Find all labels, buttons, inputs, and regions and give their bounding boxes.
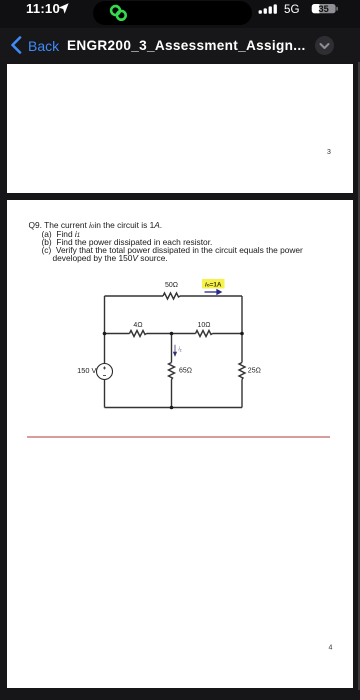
signal bars <box>258 4 280 14</box>
svg-text:i1: i1 <box>179 346 182 352</box>
wire middle right segment <box>213 332 243 334</box>
nav back chevron <box>9 36 23 54</box>
svg-text:50Ω: 50Ω <box>165 281 178 288</box>
wire top left segment <box>105 295 164 297</box>
voltage source 150V circle <box>97 363 113 379</box>
wire middle center segment <box>147 332 196 334</box>
svg-text:65Ω: 65Ω <box>179 367 192 374</box>
Back label <box>28 38 59 54</box>
wire center branch upper <box>171 333 173 362</box>
node dot left middle <box>103 331 107 335</box>
battery <box>311 3 339 15</box>
red divider line <box>27 436 330 438</box>
header background (status bar + nav bar) <box>0 0 360 62</box>
wire left vertical upper <box>104 296 106 364</box>
5G label <box>284 3 299 16</box>
status bar time <box>26 1 60 16</box>
svg-text:25Ω: 25Ω <box>248 367 261 374</box>
page 4 <box>7 200 353 688</box>
io arrow (navy, right) <box>205 289 222 293</box>
node dot right middle <box>240 331 244 335</box>
wire center branch lower <box>171 379 173 407</box>
svg-text:4: 4 <box>329 644 333 651</box>
wire right vertical lower <box>241 379 243 407</box>
resistor 4Ω zigzag <box>130 330 147 336</box>
page 3 (partial) <box>7 64 353 193</box>
question text block <box>29 220 163 230</box>
nav title <box>67 38 306 53</box>
resistor 50Ω zigzag <box>163 293 180 299</box>
wire right vertical upper <box>241 296 243 363</box>
wire middle left segment <box>105 332 130 334</box>
wire left vertical lower <box>104 379 106 407</box>
dynamic island <box>93 1 252 25</box>
node dot center bottom <box>170 405 174 409</box>
circuit schematic <box>7 200 352 688</box>
wire top right segment <box>180 295 242 297</box>
source polarity minus <box>103 374 106 376</box>
right edge scrollbar line <box>358 62 360 690</box>
resistor 25Ω zigzag vertical <box>239 362 245 379</box>
svg-text:io=1A: io=1A <box>205 281 222 288</box>
resistor 65Ω zigzag vertical <box>169 362 175 379</box>
resistor 10Ω zigzag <box>196 330 213 336</box>
nav right circle button <box>315 36 334 55</box>
wire bottom <box>105 406 243 408</box>
source polarity plus <box>103 366 106 375</box>
svg-text:35: 35 <box>318 4 328 14</box>
i1 arrow (navy, down) <box>174 344 177 355</box>
node dot center middle <box>170 331 174 335</box>
green activity icon (interlocked rings) <box>105 1 131 25</box>
svg-text:4Ω: 4Ω <box>133 321 142 328</box>
location arrow icon <box>57 2 70 15</box>
io=1A yellow highlight label <box>202 279 225 289</box>
svg-text:10Ω: 10Ω <box>197 321 210 328</box>
svg-text:150 V: 150 V <box>77 366 96 375</box>
